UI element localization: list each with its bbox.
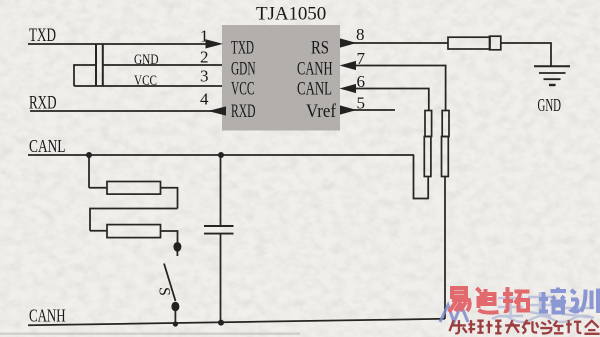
wire R4 right lead and drop	[161, 188, 178, 209]
watermark blue overlay glyphs	[492, 292, 594, 322]
resistor R5	[107, 225, 161, 238]
svg-text:RXD: RXD	[231, 101, 256, 122]
watermark char pei	[539, 288, 566, 313]
svg-text:1: 1	[200, 27, 209, 46]
resistor R1 horizontal	[448, 37, 490, 49]
svg-text:S: S	[155, 287, 172, 296]
svg-text:GDN: GDN	[231, 59, 256, 80]
wire middle run back left	[90, 209, 178, 231]
wire R1 to ground corner	[500, 43, 551, 66]
wire switch bottom stem to CANH	[174, 310, 176, 325]
svg-text:VCC: VCC	[134, 73, 157, 89]
svg-text:CANH: CANH	[29, 306, 66, 326]
svg-text:GND: GND	[134, 52, 159, 68]
wire CANL bus	[28, 154, 414, 156]
wire pin 8 RS	[353, 42, 448, 44]
wire switch top stem	[176, 251, 178, 256]
watermark blue mark left	[440, 305, 468, 322]
svg-text:RXD: RXD	[29, 94, 57, 114]
wire CANH bus	[28, 319, 445, 326]
junction dot CANL capacitor	[218, 152, 224, 158]
svg-text:TJA1050: TJA1050	[256, 4, 328, 25]
svg-text:CANL: CANL	[29, 136, 66, 156]
capacitor C2 bottom plate	[204, 233, 234, 235]
junction dot CANH capacitor	[218, 320, 224, 326]
wire pin 7 CANH to right resistor	[353, 66, 446, 112]
ground symbol line 2	[539, 72, 566, 74]
wire R4 left lead	[89, 187, 107, 189]
wire GND left segment	[74, 64, 96, 66]
pin 6 arrow left into IC	[340, 84, 357, 93]
capacitor C1 left plate	[95, 44, 97, 86]
watermark slogan row	[450, 320, 600, 334]
wire CANL drop to R4	[88, 155, 90, 188]
wire GND right segment to pin 2	[103, 64, 222, 66]
wire left drop GND to VCC	[73, 64, 75, 86]
wire R2 bottom lead	[427, 177, 429, 199]
svg-text:TXD: TXD	[231, 38, 254, 59]
wire CANL bus corner to R2	[414, 155, 429, 199]
wire R3 bottom down to CANH bus	[444, 177, 446, 319]
watermark char tuo	[503, 287, 530, 311]
pin 4 arrow out of IC	[208, 106, 226, 115]
watermark char yi	[449, 288, 470, 312]
watermark char xun	[571, 289, 598, 314]
pin 5 arrow right	[340, 105, 357, 114]
capacitor C2 top plate	[204, 225, 234, 227]
watermark char di	[477, 288, 499, 313]
junction dot CANH switch	[173, 321, 178, 326]
svg-text:VCC: VCC	[231, 79, 255, 100]
switch bottom contact dot	[171, 302, 179, 312]
svg-text:7: 7	[357, 49, 366, 68]
capacitor C1 right plate	[102, 44, 104, 86]
svg-text:CANL: CANL	[297, 79, 332, 100]
ground symbol line 3	[544, 78, 561, 80]
svg-text:4: 4	[200, 90, 209, 109]
wire pin 5 Vref stub	[353, 109, 395, 111]
pin 1 arrow into IC	[206, 39, 224, 48]
svg-text:3: 3	[200, 67, 209, 86]
switch top contact dot	[173, 242, 181, 252]
wire R5 left lead	[90, 230, 107, 232]
svg-text:TXD: TXD	[29, 26, 56, 46]
wire pin 6 CANL to left resistor	[353, 89, 429, 112]
bottom scan smudge	[0, 333, 300, 335]
ground symbol line 1	[534, 65, 570, 67]
resistor R3 vertical right	[442, 111, 449, 137]
svg-text:5: 5	[357, 94, 366, 113]
svg-text:6: 6	[357, 72, 366, 91]
svg-text:Vref: Vref	[306, 101, 337, 122]
resistor R2 vertical left	[425, 111, 432, 137]
svg-text:2: 2	[200, 48, 209, 67]
pin 8 arrow right	[340, 38, 357, 47]
wire TXD to pin 1	[28, 43, 210, 45]
junction dot CANL left	[86, 152, 92, 158]
IC U1 TJA1050 body	[222, 25, 340, 131]
watermark logo	[440, 287, 600, 334]
pin 7 arrow left into IC	[340, 61, 357, 70]
svg-text:RS: RS	[311, 38, 329, 59]
capacitor C2 top lead	[220, 155, 222, 226]
wire VCC to pin 3	[74, 85, 222, 87]
capacitor C2 bottom lead	[220, 234, 222, 323]
wire R5 right lead and drop to switch	[161, 231, 178, 245]
svg-text:8: 8	[356, 25, 365, 44]
svg-text:GND: GND	[538, 95, 562, 115]
switch S blade	[164, 264, 176, 302]
resistor R4	[107, 182, 161, 195]
ground symbol line 4	[549, 84, 556, 86]
wire RXD from pin 4	[30, 110, 212, 112]
svg-text:CANH: CANH	[297, 59, 333, 80]
